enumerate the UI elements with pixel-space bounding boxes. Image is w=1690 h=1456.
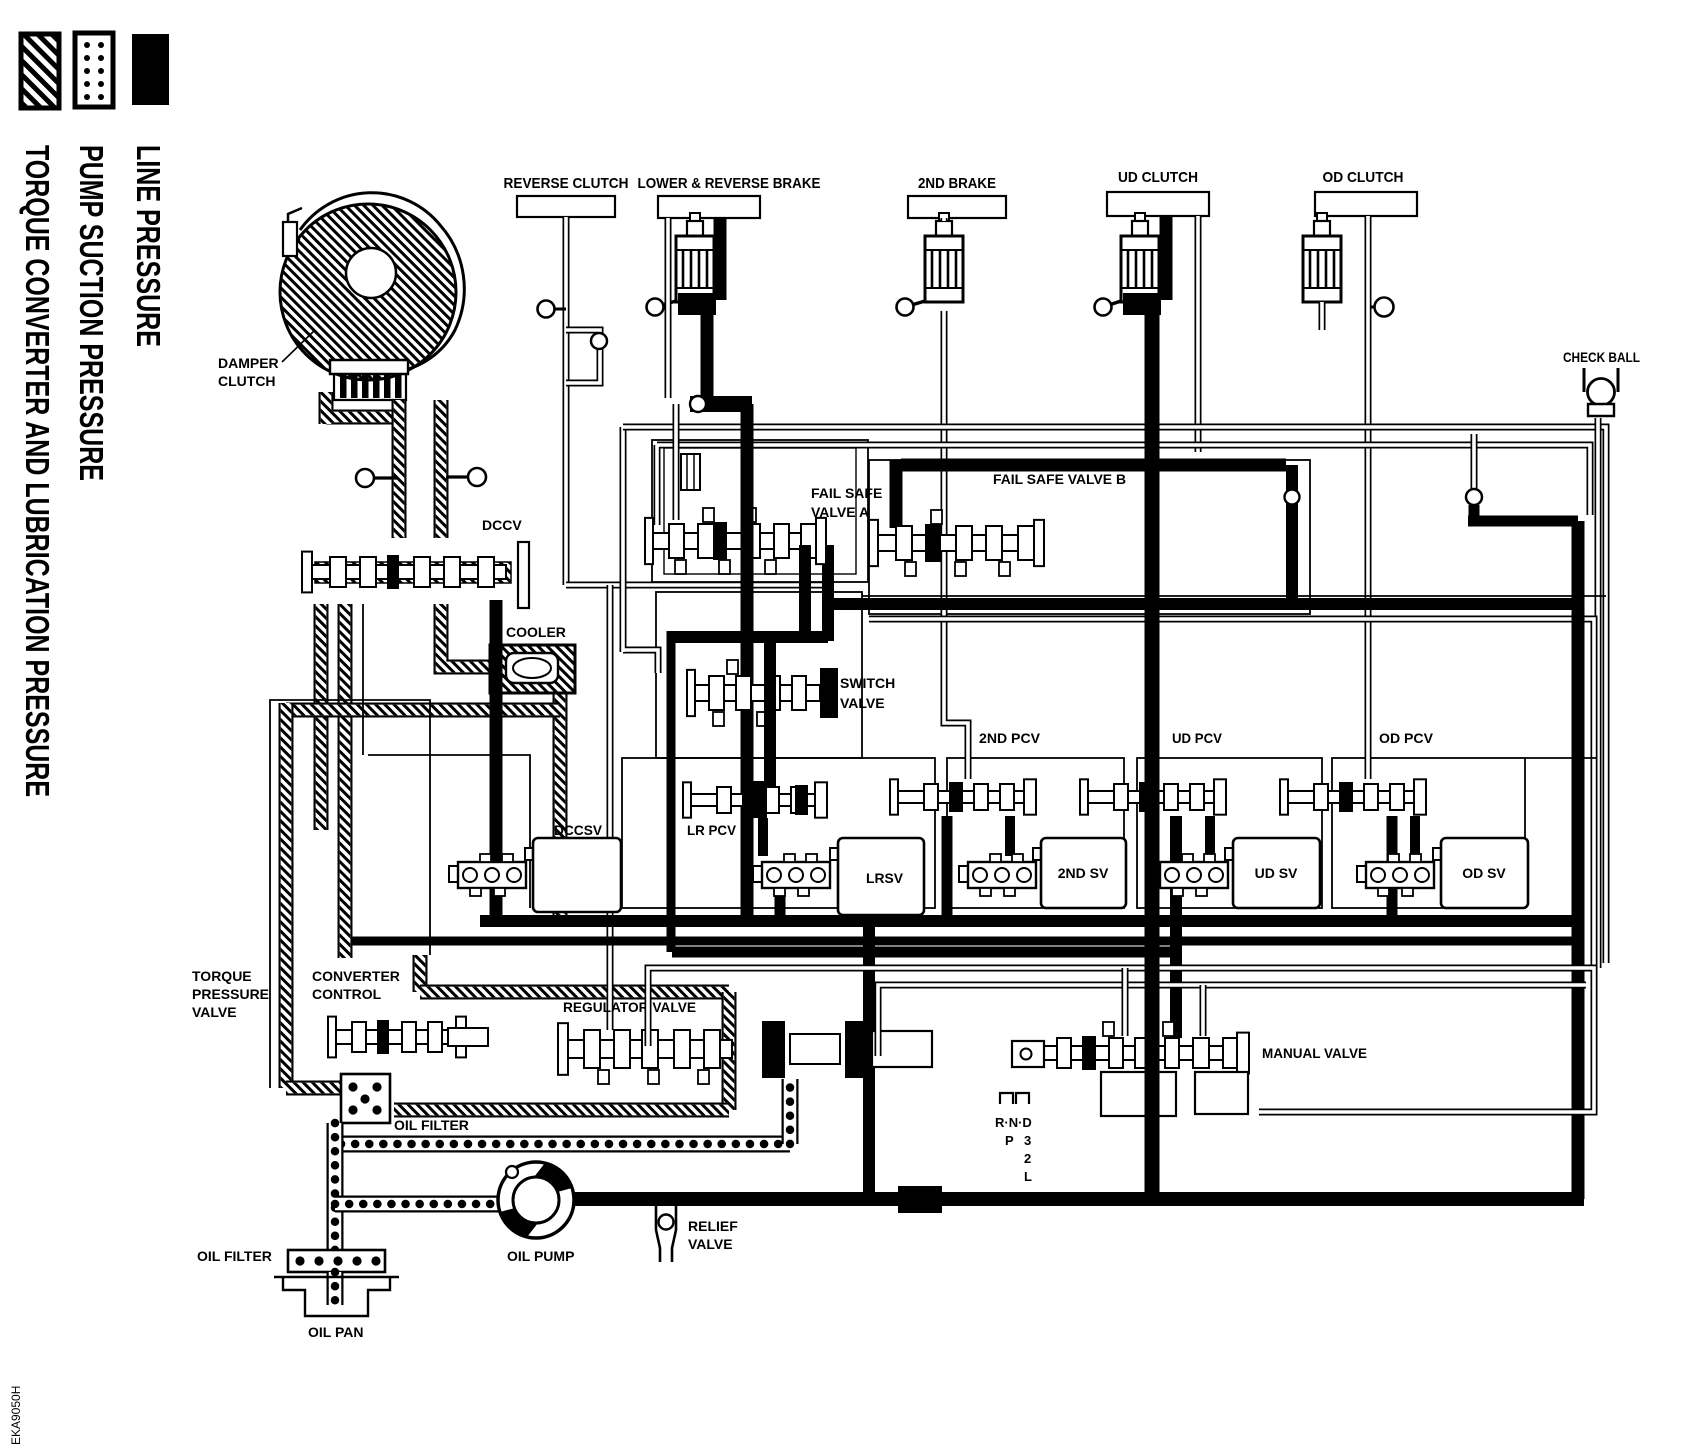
line switch valve to LR PCV <box>764 715 776 786</box>
torque converter damper clutch <box>280 193 464 400</box>
box LR PCV compartment <box>622 758 935 908</box>
solenoid OD SV bracket <box>1357 854 1434 896</box>
line OD PCV drop <box>1387 816 1398 921</box>
valve converter control <box>328 1017 466 1058</box>
label shifter positions <box>995 1115 1032 1184</box>
svg-text:REGULATOR VALVE: REGULATOR VALVE <box>563 999 696 1015</box>
line main pressure rail <box>828 598 1578 610</box>
box OD PCV compartment <box>1332 758 1525 908</box>
svg-text:SWITCH: SWITCH <box>840 675 895 691</box>
svg-text:RELIEF: RELIEF <box>688 1218 738 1234</box>
LR PCV black port <box>750 781 767 818</box>
wire upper manifold B <box>657 445 1590 525</box>
svg-text:R·N·D: R·N·D <box>995 1115 1032 1130</box>
oil pump <box>498 1162 574 1238</box>
accumulator UD clutch <box>1095 213 1162 316</box>
port OD CLUTCH <box>1315 192 1417 216</box>
line right riser <box>1572 521 1585 1199</box>
line UD PCV to manual valve <box>1170 816 1182 1038</box>
check ball OD line <box>1368 298 1394 317</box>
label TORQUE PRESSURE VALVE <box>192 968 269 1020</box>
oil pan <box>274 1277 399 1316</box>
manual valve left box <box>1012 1041 1044 1067</box>
valve SWITCH VALVE <box>687 660 820 726</box>
line LRSV drop <box>775 893 786 921</box>
svg-text:UD CLUTCH: UD CLUTCH <box>1118 169 1198 186</box>
pipe DCCV down left <box>314 604 329 830</box>
wire manual valve stem B <box>1200 985 1207 1036</box>
svg-text:EKA9050H: EKA9050H <box>9 1386 23 1445</box>
pipe converter outlet left Z-bend <box>326 392 399 424</box>
solenoid DCCSV body <box>525 838 621 912</box>
line rail joint <box>828 598 840 610</box>
box switch valve <box>656 592 862 758</box>
svg-text:OIL FILTER: OIL FILTER <box>394 1117 469 1133</box>
wire L&R rect to elbow <box>665 218 672 398</box>
junction ball fail safe B right <box>1285 490 1300 505</box>
line UD PCV to UD SV <box>1205 816 1215 856</box>
wire OD clutch to OD PCV <box>1365 216 1372 779</box>
svg-text:OD CLUTCH: OD CLUTCH <box>1323 169 1404 186</box>
box fail safe valve A inner <box>664 448 856 574</box>
svg-text:DCCSV: DCCSV <box>554 822 603 838</box>
LR PCV black port 2 <box>795 785 808 815</box>
valve DCCV hatch channel <box>315 562 511 583</box>
wire branch to switch valve <box>623 427 658 673</box>
line L&R brake feed upper <box>714 218 727 300</box>
valve DCCV right flange <box>518 542 529 608</box>
svg-text:LR PCV: LR PCV <box>687 822 737 838</box>
label SWITCH VALVE <box>840 675 895 711</box>
pipe converter to DCCV left <box>392 400 407 538</box>
wire ball drop right <box>1471 434 1478 490</box>
line compartment top right extension <box>1525 757 1596 759</box>
svg-text:OIL PAN: OIL PAN <box>308 1324 364 1340</box>
svg-text:CLUTCH: CLUTCH <box>218 373 276 389</box>
pipe filter column vertical <box>722 992 737 1110</box>
svg-text:2ND BRAKE: 2ND BRAKE <box>918 175 996 192</box>
wire reverse clutch line down <box>563 217 570 585</box>
solenoid 2ND SV bracket <box>959 854 1036 896</box>
suction filter to oil pan <box>327 1272 344 1305</box>
wire reverse branch down to regulator <box>607 585 614 1030</box>
valve MANUAL VALVE <box>1043 1022 1249 1073</box>
line fail safe A drop <box>799 545 811 637</box>
wire regulator to manual valve loop B <box>878 985 1586 1056</box>
box fail safe valve B <box>869 460 1310 614</box>
bolt plug right of DCCV <box>446 468 486 486</box>
port REVERSE CLUTCH <box>517 196 615 217</box>
svg-text:REVERSE CLUTCH: REVERSE CLUTCH <box>504 175 629 192</box>
line 2ND PCV drop <box>942 816 953 921</box>
pipe converter control to filter column <box>420 985 729 1000</box>
check ball on bypass loop <box>591 333 607 349</box>
wire check ball line <box>1595 418 1602 968</box>
svg-text:PUMP SUCTION PRESSURE: PUMP SUCTION PRESSURE <box>73 145 110 481</box>
solenoid LRSV bracket <box>753 854 830 896</box>
pipe lube manifold horizontal <box>286 703 560 718</box>
wire 2nd brake to 2ND PCV <box>944 311 968 779</box>
line LR PCV to LRSV <box>758 818 768 856</box>
svg-text:LRSV: LRSV <box>866 870 904 886</box>
line pump outlet main <box>560 1192 1584 1206</box>
svg-text:VALVE: VALVE <box>840 695 885 711</box>
svg-text:TORQUE CONVERTER AND LUBRICATI: TORQUE CONVERTER AND LUBRICATION PRESSUR… <box>19 145 56 797</box>
svg-text:2ND SV: 2ND SV <box>1058 865 1109 881</box>
valve DCCV <box>302 552 506 593</box>
svg-text:DAMPER: DAMPER <box>218 355 279 371</box>
valve OD PCV <box>1280 779 1426 814</box>
line DCCV drain down <box>490 600 503 921</box>
wire DCCV to DCCSV compartment <box>362 604 364 755</box>
label DAMPER CLUTCH <box>218 330 315 389</box>
manual valve lower boxes <box>1101 1072 1248 1116</box>
svg-text:PRESSURE: PRESSURE <box>192 986 269 1002</box>
line fail safe B top feed <box>901 459 1286 472</box>
line return rail lower <box>352 937 1578 946</box>
solenoid OD SV body <box>1433 838 1528 908</box>
svg-text:UD PCV: UD PCV <box>1172 730 1223 746</box>
junction ball L&R elbow <box>690 396 752 412</box>
regulator valve black bar 1 <box>762 1021 785 1078</box>
valve FAIL SAFE VALVE B <box>869 510 1044 576</box>
line UD clutch main <box>1145 300 1160 1199</box>
label CONVERTER CONTROL <box>312 968 400 1002</box>
svg-text:VALVE A: VALVE A <box>811 504 869 520</box>
svg-text:CHECK BALL: CHECK BALL <box>1563 349 1640 365</box>
svg-text:OIL PUMP: OIL PUMP <box>507 1248 574 1264</box>
valve UD PCV <box>1080 779 1226 814</box>
wire reverse clutch bypass loop <box>566 330 600 383</box>
svg-text:DCCV: DCCV <box>482 517 522 533</box>
line regulator riser <box>863 922 875 1199</box>
oil filter lower <box>288 1250 385 1272</box>
line pressure block <box>898 1186 942 1213</box>
svg-text:FAIL SAFE: FAIL SAFE <box>811 485 882 501</box>
converter control stem <box>448 1028 488 1046</box>
solenoid UD SV body <box>1225 838 1320 908</box>
line UD clutch feed <box>1160 216 1173 300</box>
switch valve black end <box>820 668 838 718</box>
pipe DCCV to cooler <box>441 604 496 667</box>
line left pressure drop <box>667 631 676 952</box>
solenoid 2ND SV body <box>1033 838 1126 908</box>
line OD PCV to OD SV <box>1410 816 1420 856</box>
solenoid UD SV bracket <box>1151 854 1228 896</box>
line return rail upper <box>480 915 1578 927</box>
line switch valve cross drop <box>764 641 776 786</box>
wire reverse clutch to fail safe A <box>566 582 830 589</box>
line fail safe B right drop <box>1286 465 1298 604</box>
svg-text:L: L <box>1024 1169 1032 1184</box>
svg-text:COOLER: COOLER <box>506 624 566 640</box>
regulator valve right spool <box>790 1021 932 1078</box>
line valve body top edge <box>862 595 1606 597</box>
legend swatch torque converter pressure (hatched) <box>21 34 59 108</box>
svg-text:3: 3 <box>1024 1133 1031 1148</box>
valve LR PCV <box>683 782 827 817</box>
svg-text:VALVE: VALVE <box>192 1004 237 1020</box>
cooler <box>490 645 575 693</box>
wire OD accumulator stub <box>1319 302 1326 330</box>
valve 2ND PCV <box>890 779 1036 814</box>
box UD PCV compartment <box>1137 758 1322 908</box>
svg-text:LINE PRESSURE: LINE PRESSURE <box>130 145 167 347</box>
svg-text:OIL FILTER: OIL FILTER <box>197 1248 272 1264</box>
line into fail safe B left <box>890 460 903 528</box>
svg-text:FAIL SAFE VALVE B: FAIL SAFE VALVE B <box>993 471 1126 487</box>
box 2ND PCV compartment <box>947 758 1124 908</box>
wire manual valve stem A <box>1122 968 1129 1036</box>
wire upper manifold A <box>623 427 1606 963</box>
box torque pressure valve enclosure <box>270 700 430 1088</box>
svg-text:OD PCV: OD PCV <box>1379 730 1434 746</box>
pipe cooler return down <box>553 690 568 921</box>
box fail safe valve A <box>652 440 868 582</box>
accumulator OD clutch <box>1303 213 1341 302</box>
check ball <box>1584 368 1618 416</box>
line right riser feed <box>1468 505 1578 521</box>
port LOWER & REVERSE BRAKE <box>658 196 760 218</box>
legend swatch line pressure (solid) <box>132 34 169 105</box>
oil filter upper <box>341 1074 390 1123</box>
svg-text:OD SV: OD SV <box>1462 865 1506 881</box>
accumulator 2nd brake <box>897 213 964 316</box>
line L&R brake feed lower <box>701 296 714 399</box>
check ball on reverse clutch line <box>538 301 567 318</box>
wire 2nd brake stub <box>941 218 948 221</box>
pipe converter to DCCV right <box>434 400 449 538</box>
label RELIEF VALVE <box>688 1218 738 1252</box>
line lower rail to manual valve <box>672 947 1176 958</box>
legend swatch pump suction pressure (dotted) <box>75 33 113 107</box>
solenoid DCCSV bracket <box>449 854 526 896</box>
wire elbow branch to fail safe A <box>673 404 680 520</box>
suction to oil pump <box>335 1196 500 1213</box>
line L&R to LR PCV <box>741 404 754 921</box>
line 2ND PCV to 2ND SV <box>1005 816 1015 856</box>
svg-text:CONTROL: CONTROL <box>312 986 382 1002</box>
pipe torque pressure valve feed <box>279 703 294 1088</box>
port 2ND BRAKE <box>908 196 1006 218</box>
svg-text:2ND PCV: 2ND PCV <box>979 730 1041 746</box>
relief valve <box>656 1206 676 1262</box>
svg-text:LOWER & REVERSE BRAKE: LOWER & REVERSE BRAKE <box>638 175 821 192</box>
pipe torque pressure valve bottom elbow <box>286 1081 341 1096</box>
line switch valve to fail safe B <box>822 545 834 641</box>
wire regulator to manual valve loop A <box>648 968 1594 1112</box>
pipe oil filter outlet band <box>394 1103 729 1118</box>
svg-text:MANUAL VALVE: MANUAL VALVE <box>1262 1045 1367 1061</box>
pipe converter control drop <box>413 955 428 992</box>
bolt plug left of DCCV <box>356 469 397 487</box>
box DCCSV compartment <box>368 755 530 908</box>
accumulator lower & reverse brake <box>647 213 717 316</box>
svg-text:2: 2 <box>1024 1151 1031 1166</box>
valve FAIL SAFE VALVE A <box>645 508 826 574</box>
label FAIL SAFE VALVE A <box>811 485 882 520</box>
svg-text:CONVERTER: CONVERTER <box>312 968 400 984</box>
junction ball right riser <box>1466 489 1482 505</box>
svg-text:VALVE: VALVE <box>688 1236 733 1252</box>
shifter gate icon <box>1000 1093 1029 1104</box>
valve REGULATOR VALVE <box>558 1023 732 1084</box>
svg-text:UD SV: UD SV <box>1255 865 1298 881</box>
line L&R crossing fail safe A <box>741 500 754 580</box>
wire below main rail <box>869 619 1594 965</box>
pilot solenoid fail safe A <box>681 454 700 490</box>
wire UD clutch branch <box>1195 216 1202 452</box>
suction filter to regulator horizontal <box>341 1136 790 1153</box>
line switch valve feed <box>671 631 828 643</box>
port UD CLUTCH <box>1107 192 1209 216</box>
svg-text:P: P <box>1005 1133 1014 1148</box>
suction left column <box>327 1123 344 1250</box>
suction riser to regulator <box>782 1079 799 1144</box>
pipe DCCV to converter control <box>338 604 353 958</box>
solenoid LRSV body <box>830 838 924 915</box>
svg-text:TORQUE: TORQUE <box>192 968 252 984</box>
